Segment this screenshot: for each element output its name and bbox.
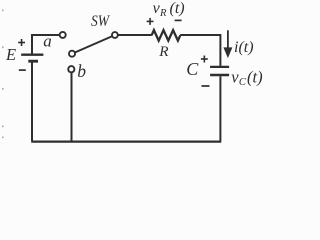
switch pole terminal circle — [112, 32, 118, 38]
svg-text:b: b — [77, 61, 86, 81]
wire bottom return — [31, 140, 221, 142]
wire battery negative lead — [31, 63, 33, 141]
capacitor C plates — [210, 67, 229, 75]
battery E plates — [21, 55, 43, 62]
capacitor minus sign — [202, 85, 210, 87]
svg-text:a: a — [43, 32, 52, 51]
svg-text:R: R — [158, 43, 169, 60]
svg-text:i(t): i(t) — [234, 39, 254, 56]
wire battery positive lead to node a — [32, 35, 59, 54]
switch pivot terminal circle — [69, 51, 75, 57]
svg-text:SW: SW — [91, 13, 110, 30]
resistor R zigzag — [152, 30, 181, 40]
node b terminal circle — [68, 66, 74, 72]
resistor plus sign — [147, 18, 154, 25]
svg-text:C: C — [186, 59, 199, 79]
page edge artifact dots — [2, 10, 4, 139]
current arrow i(t) — [223, 30, 232, 58]
svg-text:vC(t): vC(t) — [231, 67, 262, 88]
svg-text:E: E — [5, 45, 16, 64]
node a terminal circle — [60, 32, 66, 38]
switch SW arm — [72, 35, 115, 54]
resistor minus sign — [175, 19, 182, 21]
battery plus sign — [18, 39, 25, 46]
wire switch pole to resistor — [118, 34, 152, 36]
capacitor plus sign — [201, 56, 208, 63]
wire capacitor bottom lead — [219, 76, 221, 141]
svg-text:vR(t): vR(t) — [153, 0, 185, 19]
wire resistor to top-right corner down to capacitor — [180, 35, 220, 66]
wire node b lead down — [71, 73, 73, 141]
battery minus sign — [19, 69, 26, 71]
